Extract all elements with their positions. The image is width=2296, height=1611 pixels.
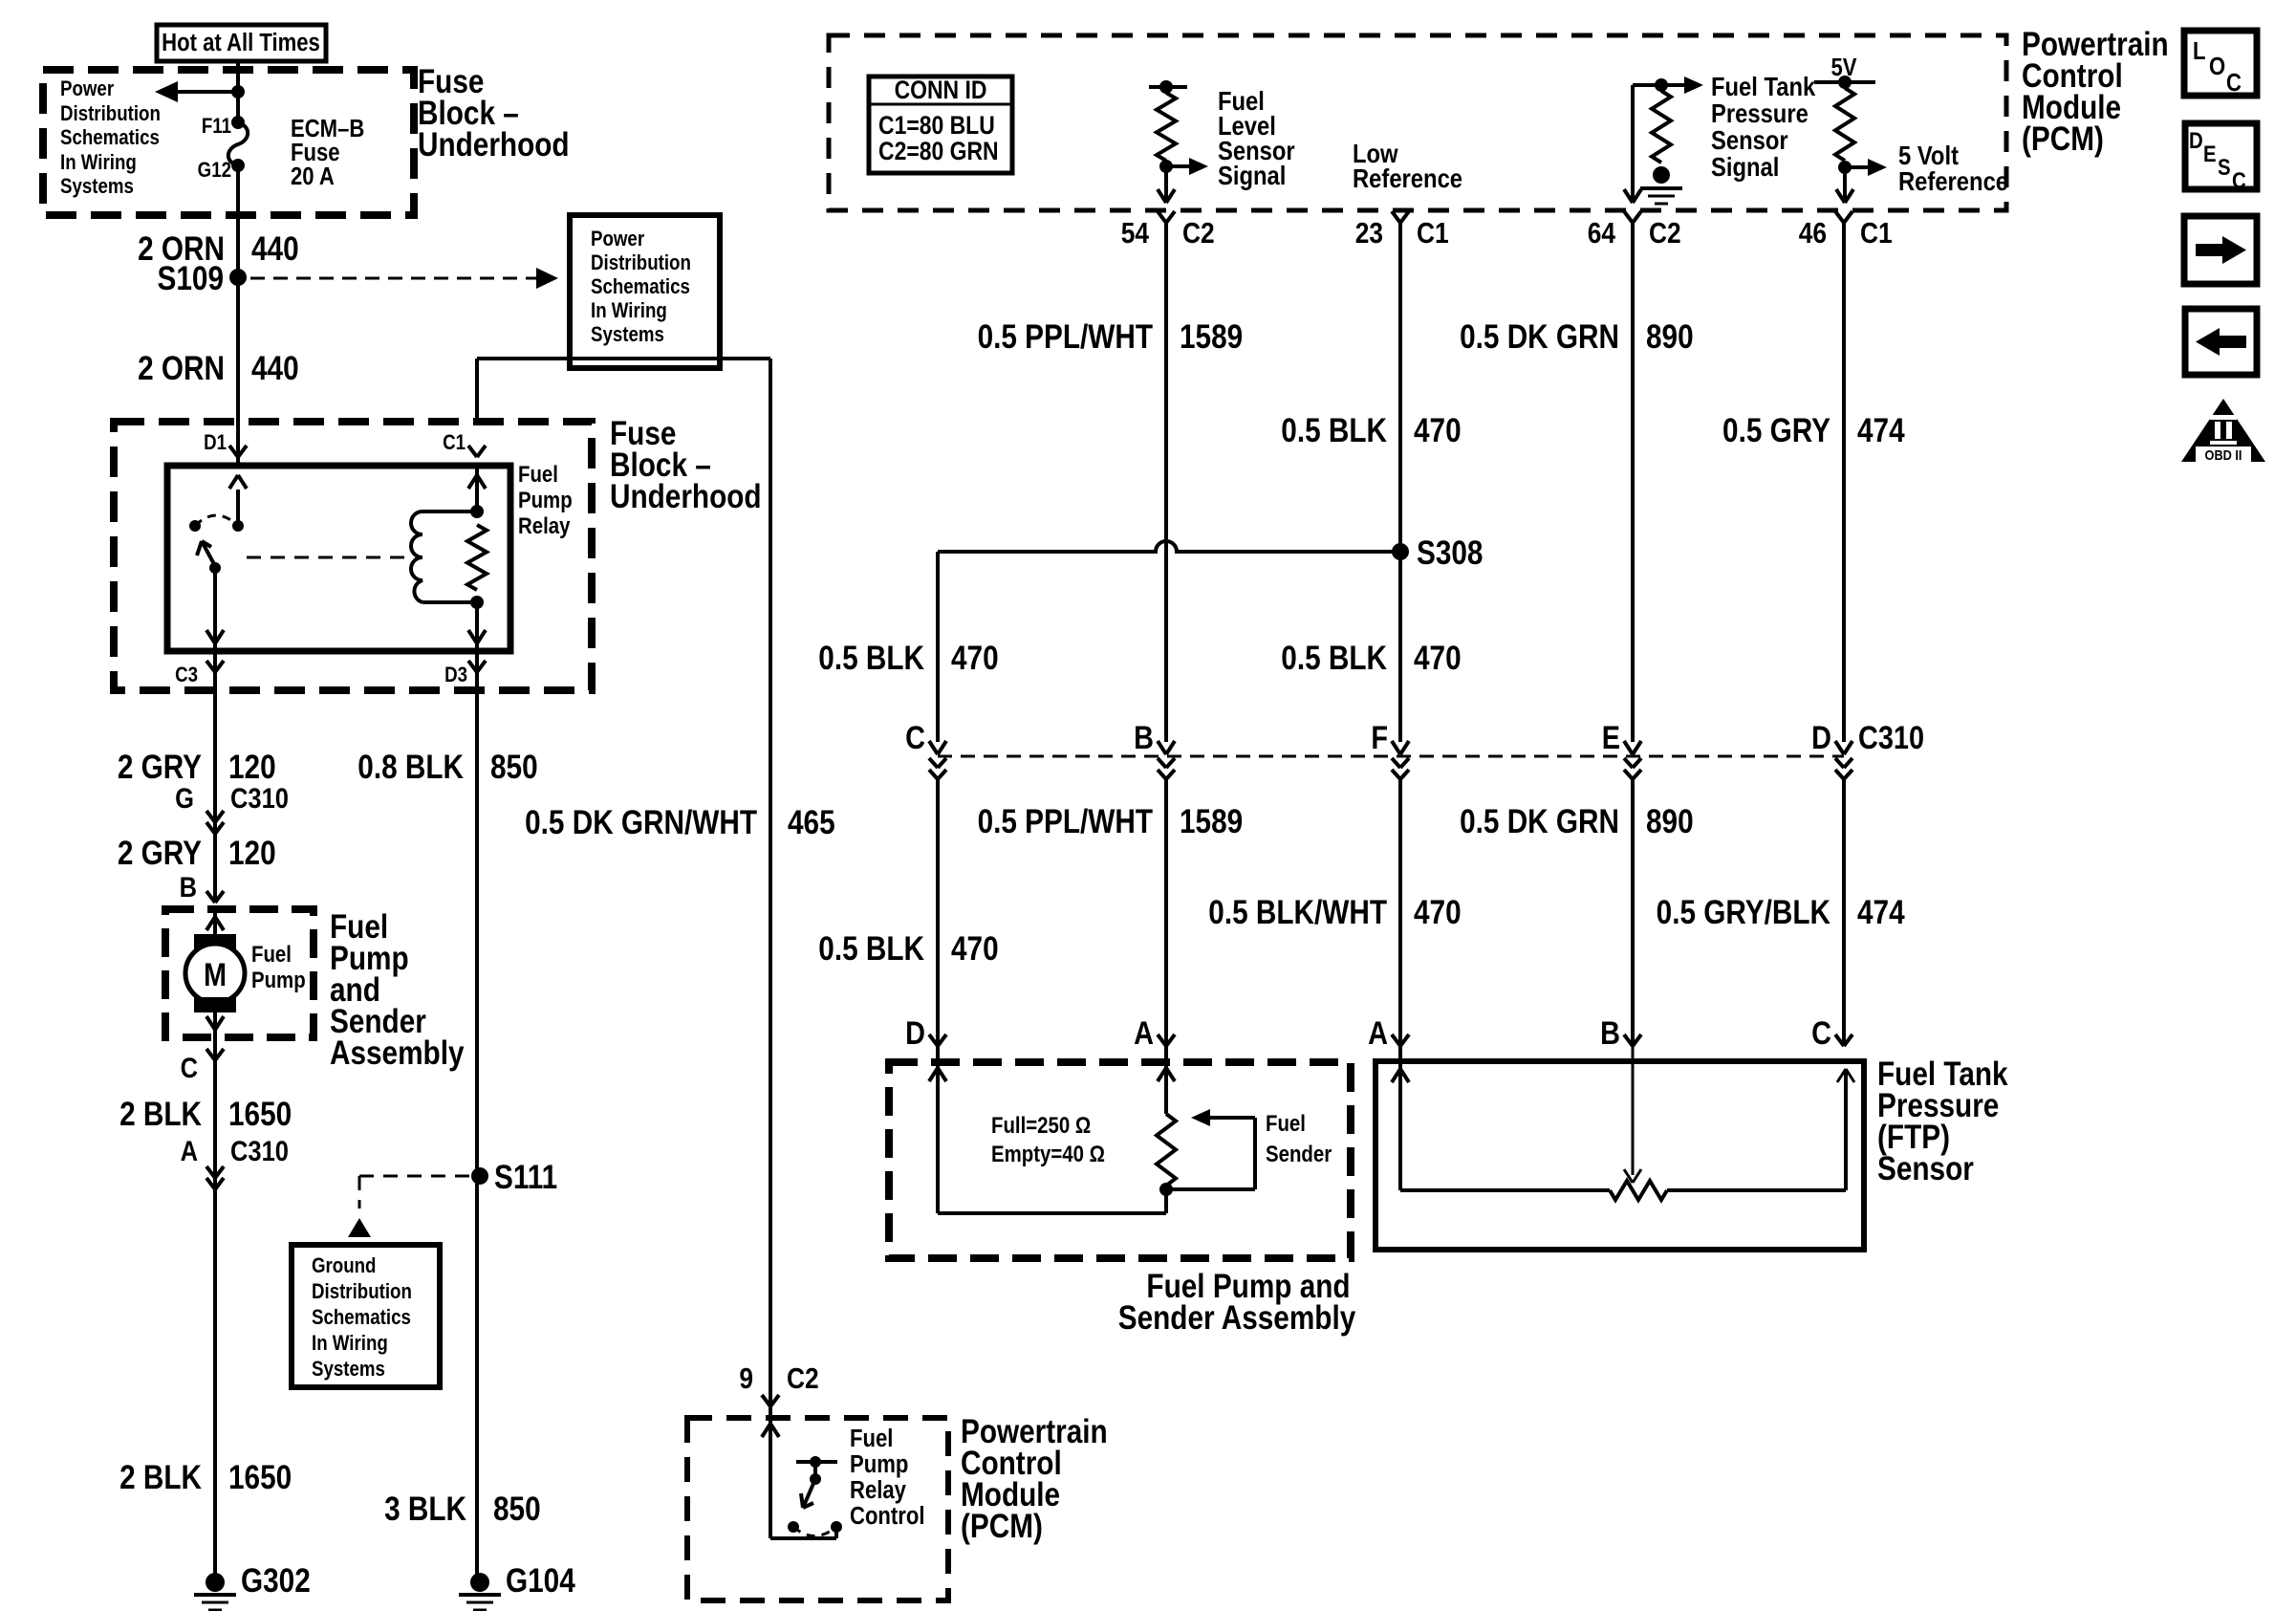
dashed link: S111 to ground distribution <box>348 1176 471 1237</box>
label: 0.5 BLK/WHT 470 <box>1208 894 1461 931</box>
wire: 0.5 PPL/WHT 1589 (upper) <box>1164 223 1168 742</box>
connector C310 pin E <box>1602 719 1641 779</box>
svg-text:Signal: Signal <box>1711 151 1779 182</box>
node S111 <box>471 1159 557 1196</box>
svg-text:C2: C2 <box>1182 217 1215 250</box>
svg-text:OBD II: OBD II <box>2205 446 2242 463</box>
label: Fuel Level Sensor Signal <box>1218 85 1295 190</box>
label: 0.8 BLK 850 <box>357 749 537 786</box>
label: Powertrain Control Module (PCM) top <box>2022 26 2169 158</box>
svg-text:0.5 DK GRN: 0.5 DK GRN <box>1460 803 1619 840</box>
svg-text:850: 850 <box>490 749 538 786</box>
connector pin C1 (relay) <box>443 432 486 457</box>
svg-text:F: F <box>1371 719 1388 756</box>
svg-text:C: C <box>1811 1014 1831 1052</box>
wire: 2 GRY 120 (C3 down) <box>213 672 217 811</box>
svg-text:G104: G104 <box>506 1562 575 1600</box>
connector C310 pin C <box>905 719 946 779</box>
wire: 0.5 GRY 474 (upper) <box>1842 223 1846 742</box>
inline connector G C310 <box>175 782 289 834</box>
svg-text:CONN ID: CONN ID <box>895 76 987 104</box>
wire: 0.8 BLK 850 (D3 to G104) <box>475 672 479 1582</box>
svg-text:B: B <box>1600 1014 1620 1052</box>
svg-text:Underhood: Underhood <box>610 478 762 515</box>
wire: pump ground return D <box>929 1046 1166 1213</box>
icon: back arrow box <box>2185 309 2257 375</box>
fuel pump relay control switch <box>788 1456 842 1536</box>
connector pin A (bottom) <box>1368 1014 1409 1052</box>
relay switch blade <box>197 541 221 574</box>
svg-text:470: 470 <box>951 930 999 968</box>
svg-text:E: E <box>1602 719 1620 756</box>
svg-text:C: C <box>905 719 925 756</box>
svg-text:0.5 DK GRN: 0.5 DK GRN <box>1460 318 1619 356</box>
svg-text:Power: Power <box>591 229 644 251</box>
label: 0.5 DK GRN/WHT 465 <box>525 804 835 841</box>
svg-text:C3: C3 <box>175 664 198 687</box>
svg-text:20 A: 20 A <box>291 163 335 190</box>
svg-text:1650: 1650 <box>228 1096 292 1133</box>
connector pin D1 <box>204 432 247 457</box>
wire: 0.5 BLK 470 (to pump D) <box>936 779 940 1046</box>
wire: relay coil bottom to D3 with down arrow <box>468 602 486 651</box>
connector pin C3 <box>175 651 224 686</box>
wire: fuel pump relay control drive <box>762 1418 836 1538</box>
ground G302 <box>194 1562 311 1610</box>
dashed control linkage <box>247 556 409 559</box>
svg-text:Fuel: Fuel <box>850 1425 893 1452</box>
inline connector A C310 <box>181 1135 289 1189</box>
svg-text:E: E <box>2203 141 2217 166</box>
node: junction to power distribution arrow <box>231 85 245 98</box>
svg-text:C1: C1 <box>1860 217 1893 250</box>
label: 0.5 PPL/WHT 1589 (upper) <box>978 318 1244 356</box>
label C310 (row) <box>1858 719 1924 756</box>
5V reference supply <box>1814 54 1887 203</box>
wire: arrow to power distribution (left) <box>155 81 238 102</box>
label: Full=250 Empty=40 <box>991 1112 1105 1166</box>
label: 0.5 BLK 470 (to pump D) <box>818 930 998 968</box>
svg-text:D1: D1 <box>204 432 227 455</box>
svg-text:470: 470 <box>951 640 999 677</box>
svg-text:440: 440 <box>251 230 299 268</box>
wire: relay C1 to DK GRN/WHT riser <box>477 359 770 422</box>
svg-text:L: L <box>2193 37 2205 65</box>
label: 5 Volt Reference <box>1898 140 2008 196</box>
svg-text:D: D <box>905 1014 925 1052</box>
label: Fuel Sender <box>1266 1110 1332 1166</box>
svg-text:Systems: Systems <box>591 324 664 347</box>
node S308 <box>1392 534 1483 572</box>
svg-text:C: C <box>2232 167 2246 193</box>
svg-text:3 BLK: 3 BLK <box>384 1491 466 1528</box>
label: Fuse Block - Underhood (top) <box>418 63 570 163</box>
dashed box: Powertrain Control Module (bottom) <box>687 1418 948 1600</box>
label: 0.5 BLK 470 (low ref upper) <box>1281 412 1461 449</box>
label: Low Reference <box>1353 138 1462 193</box>
svg-text:D: D <box>2189 127 2203 153</box>
fuel sender wiper loop <box>1166 1109 1255 1189</box>
connector pin B (bottom) <box>1600 1014 1641 1052</box>
svg-text:120: 120 <box>228 749 276 786</box>
svg-text:C1=80 BLU: C1=80 BLU <box>878 111 995 140</box>
wire: S308 branch with hop <box>938 541 1400 552</box>
svg-text:G12: G12 <box>198 160 231 183</box>
wire: 0.5 BLK/WHT 470 <box>1398 779 1402 1046</box>
svg-text:Distribution: Distribution <box>60 103 161 126</box>
ground G104 <box>459 1562 575 1610</box>
svg-text:2 ORN: 2 ORN <box>138 350 225 387</box>
svg-text:465: 465 <box>788 804 835 841</box>
wire: 0.5 DK GRN/WHT 465 riser <box>769 359 772 1394</box>
svg-text:0.5 BLK: 0.5 BLK <box>1281 412 1387 449</box>
svg-text:(PCM): (PCM) <box>961 1508 1043 1545</box>
svg-text:0.5 BLK/WHT: 0.5 BLK/WHT <box>1208 894 1387 931</box>
power label box: Hot at All Times <box>157 25 326 61</box>
svg-text:M: M <box>204 956 227 993</box>
note box: Ground Distribution Schematics In Wiring Systems <box>292 1245 440 1387</box>
svg-text:1650: 1650 <box>228 1459 292 1496</box>
wire: 0.5 GRY/BLK 474 <box>1842 779 1846 1046</box>
svg-text:Underhood: Underhood <box>418 126 570 163</box>
svg-text:Hot at All Times: Hot at All Times <box>162 29 320 56</box>
svg-text:Pump: Pump <box>850 1450 908 1478</box>
fuel tank pressure sensor box <box>1375 1061 1864 1250</box>
dashed arrow: S109 to power distribution schematics <box>250 268 558 289</box>
wire: battery feed from Hot at All Times <box>236 61 240 122</box>
wire: 2 BLK 1650 (C310 to G302) <box>213 1168 217 1582</box>
svg-text:0.5 BLK: 0.5 BLK <box>818 640 924 677</box>
label: 3 BLK 850 <box>384 1491 541 1528</box>
svg-text:Distribution: Distribution <box>312 1281 412 1304</box>
svg-text:120: 120 <box>228 835 276 872</box>
svg-text:C310: C310 <box>230 1135 289 1166</box>
wire: 2 GRY 120 (C310 to pump) <box>213 811 217 903</box>
svg-text:C: C <box>181 1052 198 1083</box>
svg-text:S111: S111 <box>494 1159 557 1196</box>
svg-text:1589: 1589 <box>1180 803 1243 840</box>
svg-text:C310: C310 <box>1858 719 1924 756</box>
svg-text:A: A <box>1368 1014 1388 1052</box>
svg-text:C: C <box>2226 69 2242 97</box>
svg-text:S: S <box>2218 154 2231 180</box>
label: 0.5 DK GRN 890 (lower) <box>1460 803 1694 840</box>
fuse F11/G12 ECM-B 20A <box>228 116 248 172</box>
CONN ID table <box>869 76 1012 173</box>
connector pin D (bottom) <box>905 1014 946 1052</box>
svg-text:2 BLK: 2 BLK <box>119 1096 202 1133</box>
svg-text:0.5 GRY: 0.5 GRY <box>1722 412 1830 449</box>
svg-text:Schematics: Schematics <box>60 127 160 150</box>
svg-text:Fuel: Fuel <box>518 461 558 487</box>
svg-text:Sender Assembly: Sender Assembly <box>1118 1299 1355 1337</box>
connector pin C (bottom) <box>1811 1014 1852 1052</box>
icon: forward arrow box <box>2184 216 2257 284</box>
connector pin 23 C1 <box>1355 211 1449 250</box>
svg-text:S109: S109 <box>158 260 224 297</box>
svg-text:In Wiring: In Wiring <box>591 300 667 323</box>
wire: relay switch to C3 with down arrow <box>206 568 224 651</box>
svg-text:Full=250 Ω: Full=250 Ω <box>991 1112 1091 1138</box>
FTP sensor element <box>1392 1046 1854 1200</box>
wire: 0.5 DK GRN 890 (upper) <box>1631 223 1635 742</box>
connector pin B (fuel pump) <box>180 871 224 903</box>
svg-text:A: A <box>181 1135 198 1166</box>
svg-text:In Wiring: In Wiring <box>60 152 137 175</box>
relay switch contacts <box>189 515 244 532</box>
svg-text:9: 9 <box>739 1362 753 1395</box>
svg-text:0.5 BLK: 0.5 BLK <box>1281 640 1387 677</box>
icon: OBD II triangle <box>2181 399 2265 463</box>
label: 2 ORN 440 (lower) <box>138 350 299 387</box>
svg-text:Fuel: Fuel <box>1266 1110 1306 1136</box>
svg-text:A: A <box>1134 1014 1154 1052</box>
svg-text:850: 850 <box>493 1491 541 1528</box>
label: 0.5 BLK 470 (branch) <box>818 640 998 677</box>
svg-text:470: 470 <box>1414 894 1462 931</box>
svg-text:470: 470 <box>1414 412 1462 449</box>
svg-text:C2: C2 <box>787 1362 819 1395</box>
label S109 <box>158 260 224 297</box>
label: 2 GRY 120 (upper) <box>118 749 276 786</box>
svg-text:Signal: Signal <box>1218 160 1286 190</box>
label: 0.5 GRY 474 (upper) <box>1722 412 1905 449</box>
svg-text:Control: Control <box>850 1502 924 1530</box>
label: Fuse Block - Underhood (relay) <box>610 415 762 515</box>
wire: 0.5 DK GRN 890 (lower) <box>1631 779 1635 1046</box>
dashed box: Fuel Pump and Sender Assembly (left) <box>165 909 314 1037</box>
wire: 2 ORN 440 (S109 to fuse block) <box>236 277 240 466</box>
label: 2 BLK 1650 (upper) <box>119 1096 292 1133</box>
svg-text:1589: 1589 <box>1180 318 1243 356</box>
svg-text:Power: Power <box>60 78 114 101</box>
relay coil <box>411 505 484 609</box>
svg-text:64: 64 <box>1588 217 1615 250</box>
node S109 <box>229 269 247 286</box>
svg-text:Schematics: Schematics <box>312 1307 411 1330</box>
connector pin 9 C2 <box>739 1362 818 1418</box>
dashed box: Fuse Block - Underhood (fuse region) <box>43 70 414 215</box>
svg-text:D3: D3 <box>444 664 467 687</box>
connector C310 pin B <box>1134 719 1175 779</box>
wire: 2 BLK 1650 (pump to C310) <box>213 1060 217 1168</box>
wire: 0.5 BLK 470 (low ref upper) <box>1398 223 1402 742</box>
svg-text:Relay: Relay <box>518 512 571 538</box>
svg-text:Fuel: Fuel <box>251 941 292 967</box>
svg-text:54: 54 <box>1121 217 1149 250</box>
svg-text:D: D <box>1811 719 1831 756</box>
svg-text:G302: G302 <box>241 1562 311 1600</box>
svg-text:0.5 PPL/WHT: 0.5 PPL/WHT <box>978 318 1154 356</box>
svg-text:470: 470 <box>1414 640 1462 677</box>
svg-text:Sender: Sender <box>1266 1141 1332 1166</box>
label: 2 ORN 440 (upper) <box>138 230 299 268</box>
fuel pump relay box <box>167 466 510 651</box>
connector C310 pin D <box>1811 719 1852 779</box>
svg-text:Empty=40 Ω: Empty=40 Ω <box>991 1141 1105 1166</box>
svg-text:0.5 PPL/WHT: 0.5 PPL/WHT <box>978 803 1154 840</box>
dashed box: Fuse Block - Underhood (relay region) <box>114 422 592 690</box>
label: 2 BLK 1650 (lower) <box>119 1459 292 1496</box>
label: Fuel Pump Relay <box>518 461 573 538</box>
svg-text:Pump: Pump <box>251 967 306 992</box>
inline connector row C310 dashed line <box>938 755 1844 758</box>
svg-text:C1: C1 <box>443 432 466 455</box>
label: Fuel Pump and Sender Assembly (right) <box>1118 1268 1355 1337</box>
svg-text:B: B <box>1134 719 1154 756</box>
label: 0.5 GRY/BLK 474 <box>1657 894 1905 931</box>
svg-text:0.5 GRY/BLK: 0.5 GRY/BLK <box>1657 894 1831 931</box>
svg-text:23: 23 <box>1355 217 1383 250</box>
fuel pump motor M <box>185 909 245 1037</box>
svg-text:In Wiring: In Wiring <box>312 1333 388 1356</box>
svg-text:890: 890 <box>1646 803 1694 840</box>
label: Fuel Pump and Sender Assembly (left) <box>330 908 465 1072</box>
svg-text:Distribution: Distribution <box>591 252 691 275</box>
connector pin 64 C2 <box>1588 211 1681 250</box>
dashed box: Fuel Pump and Sender Assembly (right) <box>889 1062 1351 1258</box>
relay switch common wire with up arrow <box>229 475 247 526</box>
svg-text:0.5 BLK: 0.5 BLK <box>818 930 924 968</box>
svg-text:0.8 BLK: 0.8 BLK <box>357 749 464 786</box>
svg-text:G: G <box>175 782 194 814</box>
label: Fuel Tank Pressure (FTP) Sensor <box>1877 1056 2008 1187</box>
label: ECM-B Fuse 20 A <box>291 115 364 190</box>
svg-text:2 BLK: 2 BLK <box>119 1459 202 1496</box>
fuel tank pressure signal input <box>1624 76 1703 204</box>
dashed box: Powertrain Control Module (top) <box>829 35 2006 210</box>
connector pin 54 C2 <box>1121 211 1215 250</box>
wire: relay coil top to C1 with up arrow <box>468 466 486 512</box>
svg-text:C310: C310 <box>230 782 289 814</box>
label: 0.5 DK GRN 890 (upper) <box>1460 318 1694 356</box>
connector pin C (fuel pump) <box>181 1037 224 1083</box>
svg-text:C1: C1 <box>1417 217 1449 250</box>
pin G12 <box>198 160 231 183</box>
icon: DESC box <box>2185 123 2257 193</box>
svg-text:C2=80 GRN: C2=80 GRN <box>878 137 999 165</box>
svg-text:Systems: Systems <box>312 1359 385 1382</box>
pin F11 <box>202 116 231 139</box>
svg-text:Ground: Ground <box>312 1255 376 1278</box>
icon: LOC box <box>2184 31 2257 97</box>
svg-text:46: 46 <box>1799 217 1827 250</box>
relay internal resistor <box>467 525 487 590</box>
label: Fuel Tank Pressure Sensor Signal <box>1711 71 1816 182</box>
svg-text:440: 440 <box>251 350 299 387</box>
svg-text:Assembly: Assembly <box>330 1034 465 1072</box>
label: Fuel Pump Relay Control <box>850 1425 924 1530</box>
svg-text:474: 474 <box>1857 894 1905 931</box>
fuel level sensor pullup resistor <box>1149 80 1208 203</box>
fuel sender resistor <box>1157 1046 1176 1213</box>
label: 2 GRY 120 (lower) <box>118 835 276 872</box>
connector pin 46 C1 <box>1799 211 1893 250</box>
svg-text:C2: C2 <box>1649 217 1681 250</box>
svg-text:Relay: Relay <box>850 1476 906 1504</box>
wire: 0.5 PPL/WHT 1589 (lower) <box>1164 779 1168 1046</box>
svg-text:2 GRY: 2 GRY <box>118 749 202 786</box>
label: 0.5 PPL/WHT 1589 (lower) <box>978 803 1244 840</box>
svg-text:474: 474 <box>1857 412 1905 449</box>
svg-text:(PCM): (PCM) <box>2022 120 2104 158</box>
wire: 2 ORN 440 (fuse to S109) <box>236 165 240 277</box>
svg-text:Pump: Pump <box>518 487 573 512</box>
svg-text:Schematics: Schematics <box>591 276 690 299</box>
svg-text:Reference: Reference <box>1353 163 1462 193</box>
svg-text:Sensor: Sensor <box>1877 1150 1974 1187</box>
connector C310 pin F <box>1371 719 1409 779</box>
note: Power Distribution Schematics In Wiring Systems <box>60 78 161 199</box>
svg-text:Reference: Reference <box>1898 165 2008 196</box>
svg-text:S308: S308 <box>1417 534 1483 572</box>
wire: 0.5 BLK 470 (branch down) <box>936 552 940 742</box>
note box: Power Distribution Schematics In Wiring Systems (right) <box>570 215 720 368</box>
connector pin A (bottom) <box>1134 1014 1175 1052</box>
svg-text:O: O <box>2209 53 2225 80</box>
svg-text:F11: F11 <box>202 116 231 139</box>
label: Fuel Pump (motor) <box>251 941 306 992</box>
svg-text:B: B <box>180 871 197 903</box>
svg-text:2 GRY: 2 GRY <box>118 835 202 872</box>
svg-text:Systems: Systems <box>60 176 134 199</box>
svg-text:0.5 DK GRN/WHT: 0.5 DK GRN/WHT <box>525 804 757 841</box>
label: 0.5 BLK 470 (low ref lower) <box>1281 640 1461 677</box>
label: Powertrain Control Module (PCM) bottom <box>961 1413 1108 1545</box>
connector pin D3 <box>444 651 486 686</box>
svg-text:890: 890 <box>1646 318 1694 356</box>
